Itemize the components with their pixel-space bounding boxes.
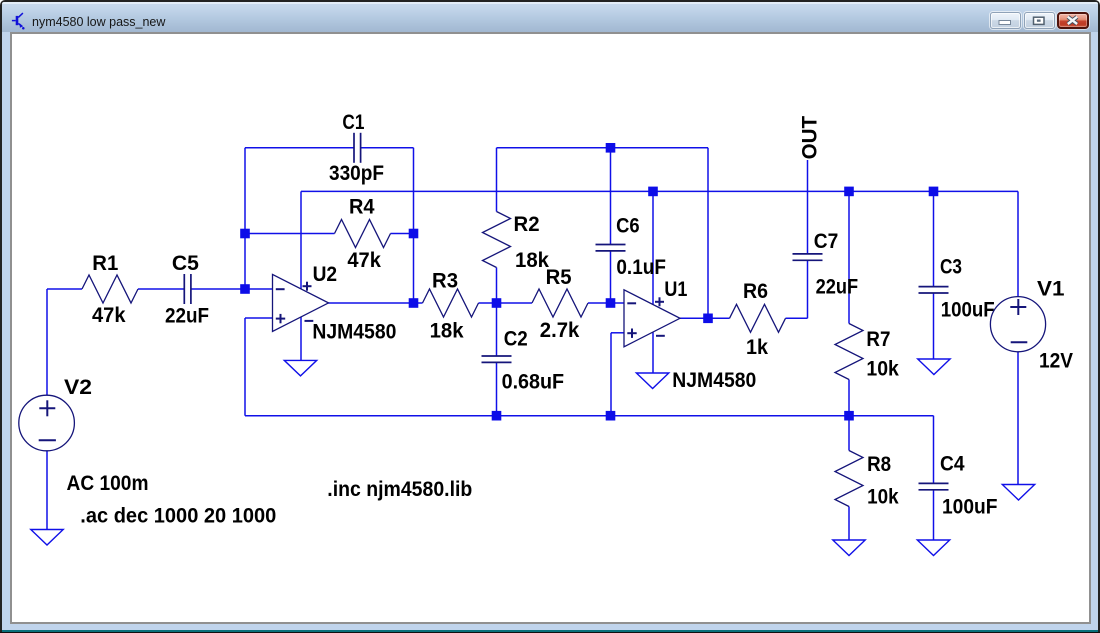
label C2 value 0.68uF xyxy=(502,370,564,394)
titlebar icon (LTspice transistor logo) xyxy=(0,0,32,32)
wire: R6 to C7 corner xyxy=(786,317,808,319)
ground U2 xyxy=(284,360,316,376)
wire: C4 bottom lead to ground xyxy=(933,490,935,540)
wire: C1 net left vertical xyxy=(244,148,246,289)
svg-text:22uF: 22uF xyxy=(816,274,859,298)
svg-text:C6: C6 xyxy=(616,213,640,237)
capacitor C6 xyxy=(596,245,626,251)
junction: U1 + loop bottom xyxy=(606,411,616,421)
svg-text:R1: R1 xyxy=(92,251,118,275)
svg-text:0.68uF: 0.68uF xyxy=(502,370,564,394)
svg-text:U1: U1 xyxy=(664,277,687,301)
resistor R6 xyxy=(730,304,786,332)
wire: C1 to right corner xyxy=(361,147,414,149)
ground R8 xyxy=(833,540,865,556)
resistor R8 xyxy=(835,451,863,507)
close button xyxy=(1057,12,1089,29)
svg-text:C4: C4 xyxy=(940,452,965,476)
label C6 value 0.1uF xyxy=(616,255,666,279)
svg-text:R8: R8 xyxy=(867,452,891,476)
label U2 part NJM4580 xyxy=(312,319,396,343)
label R1 value 47k xyxy=(92,303,126,327)
junction: C6 top xyxy=(606,143,616,153)
label C4 value 100uF xyxy=(942,495,998,519)
label R2 value 18k xyxy=(515,248,549,272)
label U1 xyxy=(664,277,687,301)
svg-text:C1: C1 xyxy=(342,110,364,134)
label C2 xyxy=(504,327,528,351)
svg-text:1k: 1k xyxy=(746,335,768,359)
wire: R4 left lead xyxy=(245,233,335,235)
capacitor C5 xyxy=(184,274,191,304)
junction: C3 top rail xyxy=(929,187,939,197)
label R6 xyxy=(743,279,768,303)
wire: V2 bottom lead to ground xyxy=(46,451,48,530)
wire: C1 net top left segment xyxy=(245,147,354,149)
capacitor C4 xyxy=(919,483,949,489)
wire: U1 V- pin to ground xyxy=(652,333,654,374)
junction: U1 V+ rail xyxy=(648,187,658,197)
junction: R5/C6/U1- node xyxy=(606,298,616,308)
svg-text:NJM4580: NJM4580 xyxy=(312,319,396,343)
junction: U2 output xyxy=(409,298,419,308)
wire: C7 top lead to OUT xyxy=(807,160,809,254)
wire: C3 top lead xyxy=(933,191,935,286)
label R4 xyxy=(349,195,375,219)
label V2 value AC 100m xyxy=(67,471,149,495)
label U2 xyxy=(313,262,338,286)
close glyph X xyxy=(1068,17,1077,24)
svg-text:V1: V1 xyxy=(1037,277,1065,301)
spice directive .inc xyxy=(327,477,472,501)
minimize glyph xyxy=(999,21,1011,25)
wire: R8 bottom lead to ground xyxy=(848,507,850,541)
junction: C5/U2- node xyxy=(240,284,250,294)
wire: R3 to middle node xyxy=(479,302,497,304)
op-amp U1 xyxy=(624,290,680,347)
capacitor C2 xyxy=(482,356,512,362)
capacitor C7 xyxy=(793,254,823,260)
wire: U1 output feedback vertical xyxy=(707,148,709,318)
svg-text:C7: C7 xyxy=(814,229,839,253)
junction: R7 top rail xyxy=(844,187,854,197)
wire: V1 top lead xyxy=(1017,191,1019,296)
svg-text:100uF: 100uF xyxy=(942,495,998,519)
wire: R1 to C5 xyxy=(138,288,184,290)
wire: V2 to R1 input row xyxy=(47,288,82,290)
wire: bottom bias rail xyxy=(245,415,934,417)
svg-text:18k: 18k xyxy=(515,248,549,272)
wire: V1 bottom lead to ground xyxy=(1017,352,1019,485)
svg-text:C3: C3 xyxy=(940,254,962,278)
label C6 xyxy=(616,213,640,237)
svg-text:18k: 18k xyxy=(430,319,464,343)
svg-text:.ac dec 1000 20 1000: .ac dec 1000 20 1000 xyxy=(80,503,276,527)
wire: U1 V+ pin xyxy=(652,191,654,304)
ground V1 xyxy=(1002,485,1034,501)
ground C4 xyxy=(917,540,949,556)
label R2 xyxy=(514,212,540,236)
label R4 value 47k xyxy=(347,248,381,272)
node OUT label xyxy=(797,116,821,160)
svg-text:OUT: OUT xyxy=(797,116,821,160)
wire: U2 V- pin to ground xyxy=(300,317,302,361)
wire: R7 bottom lead xyxy=(848,380,850,416)
svg-text:R3: R3 xyxy=(432,268,458,292)
wire: supply rail y=191 xyxy=(301,190,1018,192)
resistor R3 xyxy=(423,289,479,317)
capacitor C3 xyxy=(919,287,949,293)
ground U1 xyxy=(636,373,668,389)
label C5 value 22uF xyxy=(165,303,209,327)
resistor R7 xyxy=(835,324,863,380)
junction: U1 output/R6 xyxy=(703,314,713,324)
svg-text:U2: U2 xyxy=(313,262,338,286)
label C7 xyxy=(814,229,839,253)
label R7 value 10k xyxy=(866,357,899,381)
junction: R3/R5/C2/R2 node xyxy=(492,298,502,308)
wire: C1 right vertical to U2 output xyxy=(413,148,415,303)
junction: C2 bottom xyxy=(492,411,502,421)
resistor R4 xyxy=(335,220,391,248)
wire: U1 noninverting loop vertical xyxy=(610,333,612,416)
label R1 xyxy=(92,251,118,275)
wire: V2 top lead xyxy=(46,289,48,395)
ground V2 xyxy=(31,530,63,546)
svg-text:R5: R5 xyxy=(546,265,572,289)
minimize button xyxy=(990,12,1021,29)
wire: U2 noninverting stub xyxy=(245,317,273,319)
resistor R5 xyxy=(532,289,588,317)
voltage source V1 xyxy=(990,297,1045,352)
resistor R2 xyxy=(483,212,511,268)
window title xyxy=(32,15,165,29)
label C1 xyxy=(342,110,364,134)
svg-text:NJM4580: NJM4580 xyxy=(672,368,756,392)
svg-text:2.7k: 2.7k xyxy=(540,318,580,342)
label C1 value 330pF xyxy=(329,161,384,185)
svg-text:C5: C5 xyxy=(172,251,199,275)
spice directive .ac xyxy=(80,503,276,527)
wire: C6 top lead xyxy=(610,148,612,245)
svg-text:330pF: 330pF xyxy=(329,161,384,185)
wire: U1 noninverting stub xyxy=(611,332,624,334)
svg-text:R4: R4 xyxy=(349,195,375,219)
op-amp U2 xyxy=(273,274,329,331)
wire: middle node to R5 xyxy=(497,302,533,304)
svg-text:R7: R7 xyxy=(866,327,890,351)
svg-text:10k: 10k xyxy=(867,485,899,509)
wire: C4 top lead xyxy=(933,416,935,484)
label R5 xyxy=(546,265,572,289)
label C7 value 22uF xyxy=(816,274,859,298)
label R3 value 18k xyxy=(430,319,464,343)
wire: U2 V+ pin xyxy=(300,191,302,289)
svg-text:V2: V2 xyxy=(64,375,92,399)
svg-text:R2: R2 xyxy=(514,212,540,236)
wire: C6 bottom lead xyxy=(610,251,612,303)
svg-text:22uF: 22uF xyxy=(165,303,209,327)
svg-text:0.1uF: 0.1uF xyxy=(616,255,666,279)
svg-text:AC 100m: AC 100m xyxy=(67,471,149,495)
svg-text:47k: 47k xyxy=(92,303,126,327)
svg-text:.inc njm4580.lib: .inc njm4580.lib xyxy=(327,477,472,501)
wire: R2 top lead xyxy=(496,148,498,212)
label R3 xyxy=(432,268,458,292)
svg-text:47k: 47k xyxy=(347,248,381,272)
label V2 xyxy=(64,375,92,399)
maximize glyph xyxy=(1034,17,1045,24)
label R7 xyxy=(866,327,890,351)
label C4 xyxy=(940,452,965,476)
wire: R8 top lead xyxy=(848,416,850,451)
label C5 xyxy=(172,251,199,275)
wire: top wire right segment xyxy=(497,147,709,149)
label R5 value 2.7k xyxy=(540,318,580,342)
maximize button xyxy=(1024,12,1055,29)
wire: U1 output to R6 xyxy=(680,317,730,319)
ground C3 xyxy=(918,359,950,375)
wire: C3 bottom lead to ground xyxy=(933,293,935,359)
label R6 value 1k xyxy=(746,335,768,359)
capacitor C1 xyxy=(354,133,361,163)
wire: R5 to U1 inverting node xyxy=(588,302,624,304)
svg-text:C2: C2 xyxy=(504,327,528,351)
svg-text:10k: 10k xyxy=(866,357,899,381)
label V1 xyxy=(1037,277,1065,301)
wire: R2 bottom lead xyxy=(496,268,498,304)
svg-text:100uF: 100uF xyxy=(941,297,995,321)
wire: C2 bottom lead xyxy=(496,362,498,415)
label U1 part NJM4580 xyxy=(672,368,756,392)
junction: R7/R8 divider xyxy=(844,411,854,421)
label R8 xyxy=(867,452,891,476)
svg-text:R6: R6 xyxy=(743,279,768,303)
label R8 value 10k xyxy=(867,485,899,509)
wire: U2 output to R3 xyxy=(328,302,422,304)
junction: R4 left xyxy=(240,229,250,239)
svg-text:12V: 12V xyxy=(1039,349,1074,373)
resistor R1 xyxy=(82,275,138,303)
wire: R4 right lead xyxy=(391,233,414,235)
junction: R4 right xyxy=(409,229,419,239)
label C3 value 100uF xyxy=(941,297,995,321)
wire: U2 noninverting loop vertical xyxy=(244,318,246,416)
wire: C5 to U2 inverting input xyxy=(191,288,273,290)
wire: C2 top lead xyxy=(496,303,498,356)
wire: C7 bottom lead xyxy=(807,260,809,318)
voltage source V2 xyxy=(19,395,75,451)
wire: R7 top lead xyxy=(848,191,850,323)
button glyphs xyxy=(0,0,1100,40)
label C3 xyxy=(940,254,962,278)
label V1 value 12V xyxy=(1039,349,1074,373)
